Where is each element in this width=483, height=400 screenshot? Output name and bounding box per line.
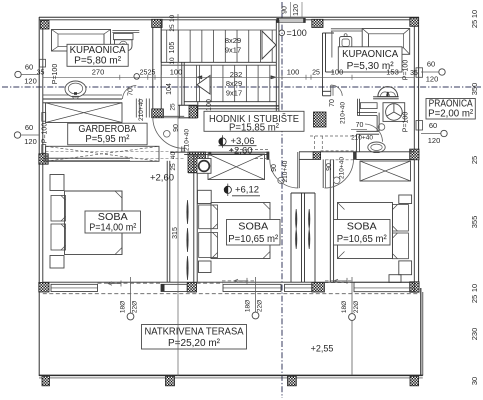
nightstand top soba 14 — [50, 175, 64, 191]
door right bath lobby — [330, 85, 332, 96]
wall garderoba / hallway — [181, 63, 183, 106]
wall garderoba / soba 14 — [43, 157, 130, 159]
axis line horizontal (dash-dot) — [2, 86, 481, 88]
bathtub right bathroom — [362, 29, 410, 55]
column top wall left-center (hatched) — [152, 19, 162, 27]
outer wall top outer line — [39, 16, 419, 18]
svg-text:10: 10 — [169, 15, 176, 23]
svg-text:70: 70 — [329, 99, 336, 107]
column south wall right (hatched) — [410, 282, 419, 292]
garderoba dashed guides — [46, 151, 187, 153]
stairwell corner niche — [178, 104, 197, 106]
terrace post center-left (hatched) — [166, 376, 175, 386]
right bath left wall segments — [322, 33, 324, 96]
hallway / south rooms wall right part — [299, 151, 313, 153]
svg-text:P=100: P=100 — [403, 60, 410, 81]
svg-text:P=100: P=100 — [42, 123, 49, 144]
svg-text:90: 90 — [173, 124, 180, 132]
svg-text:153: 153 — [386, 68, 399, 77]
central insulated wall between sobas — [290, 193, 292, 282]
svg-text:25: 25 — [470, 20, 479, 28]
svg-text:120: 120 — [428, 136, 441, 145]
door knob circle garderoba — [164, 131, 171, 138]
dashed beam lines over hallway doors — [255, 158, 266, 160]
svg-text:18Ø: 18Ø — [120, 301, 127, 313]
dimension line inner horizontal — [43, 76, 415, 78]
terrace right edge inner — [422, 292, 424, 376]
svg-text:120: 120 — [293, 4, 300, 16]
washbasin right bathroom (square) — [340, 37, 352, 49]
terrace post right (hatched) — [410, 376, 419, 386]
svg-text:30: 30 — [470, 377, 479, 385]
svg-text:104: 104 — [166, 83, 173, 95]
terrace post left (hatched) — [42, 376, 50, 386]
outer wall left inner line — [42, 20, 44, 292]
axis line vertical (dash-dot) — [281, 2, 283, 398]
nightstand bottom center soba — [199, 261, 212, 273]
svg-text:100: 100 — [170, 68, 183, 77]
terrace dashed line — [43, 293, 420, 295]
svg-text:25: 25 — [169, 24, 176, 32]
pillar marker circle 2 — [255, 277, 257, 312]
svg-text:P=15,85 m²: P=15,85 m² — [229, 123, 280, 134]
top dim tick — [290, 2, 292, 17]
svg-text:90: 90 — [271, 164, 278, 172]
pillows center soba — [199, 205, 218, 229]
svg-text:25: 25 — [312, 70, 320, 77]
bed soba 14 — [65, 191, 123, 255]
svg-text:25: 25 — [470, 295, 479, 303]
svg-text:P=25,20 m²: P=25,20 m² — [168, 338, 221, 349]
praonica partition walls — [356, 99, 358, 116]
svg-text:210+40: 210+40 — [138, 99, 145, 121]
terrace right edge outer — [420, 288, 422, 376]
wall soba14 right / insulated party wall — [166, 161, 168, 282]
svg-text:35: 35 — [410, 70, 418, 77]
column at stairwell left (hatched) — [152, 109, 164, 118]
door center soba — [297, 152, 299, 188]
svg-text:P=10,65 m²: P=10,65 m² — [228, 234, 279, 245]
door knob circle — [333, 177, 340, 184]
vertical dimension line x=178 — [177, 14, 179, 376]
svg-text:60: 60 — [427, 60, 435, 69]
column south wall center-right (hatched) — [312, 282, 325, 292]
column south wall center-left (hatched) — [187, 282, 196, 292]
svg-text:P=100: P=100 — [403, 112, 410, 133]
pillar marker circle 3 — [349, 314, 356, 321]
dim arrowhead 232 right — [271, 76, 277, 79]
stair landing line — [161, 61, 276, 63]
svg-text:10: 10 — [470, 284, 479, 292]
column hallway wall left (hatched) — [188, 152, 206, 173]
svg-text:90: 90 — [326, 163, 333, 171]
bathtub left bathroom — [52, 30, 111, 52]
dim arrowhead 232 left — [197, 76, 203, 79]
room label SOBA right — [334, 220, 391, 246]
terrace bottom edge thin — [39, 377, 423, 379]
door left bathroom arc — [123, 86, 137, 100]
svg-text:KUPAONICA: KUPAONICA — [70, 45, 126, 56]
window plinth below party wall — [161, 284, 187, 291]
wall between left bathroom and garderoba — [43, 98, 122, 100]
svg-text:18Ø: 18Ø — [341, 301, 348, 313]
right soba left wall — [329, 159, 331, 282]
terrace axis line x=352 — [351, 277, 353, 313]
column right wall mid (hatched) — [410, 149, 419, 160]
stair top platform edge — [161, 29, 276, 31]
insulation lens marks in party wall — [187, 200, 188, 224]
window soba14 south — [51, 284, 98, 291]
svg-text:60: 60 — [25, 63, 33, 72]
svg-text:P=10,65 m²: P=10,65 m² — [337, 234, 388, 245]
svg-text:8x29: 8x29 — [226, 79, 242, 88]
bathroom wall finish line — [43, 94, 122, 96]
insulation lens marks central wall — [296, 209, 297, 229]
svg-text:210+40: 210+40 — [184, 129, 191, 151]
svg-text:SOBA: SOBA — [347, 222, 377, 233]
dim leader circle 25/25 — [134, 74, 140, 80]
nightstand bottom right soba — [399, 261, 412, 275]
room label PRAONICA — [426, 99, 475, 120]
window right soba south — [354, 282, 414, 291]
top dim tick2 — [301, 2, 303, 17]
svg-text:+6,12: +6,12 — [235, 185, 259, 196]
svg-text:SOBA: SOBA — [98, 212, 128, 223]
outer wall right inner line — [413, 20, 415, 292]
right bath lower wall — [323, 90, 331, 92]
svg-text:KUPAONICA: KUPAONICA — [342, 49, 398, 60]
door knob circle praonica — [378, 124, 385, 131]
svg-text:100: 100 — [206, 99, 213, 111]
svg-text:120: 120 — [24, 77, 37, 86]
svg-text:P=100: P=100 — [52, 64, 59, 85]
room label NATKRIVENA TERASA — [142, 325, 247, 350]
nightstand top right soba — [399, 195, 412, 204]
dashed segments above south wall — [222, 280, 256, 282]
column circle in square — [197, 159, 211, 174]
svg-text:22Ø: 22Ø — [353, 301, 360, 313]
svg-text:P=5,80 m²: P=5,80 m² — [74, 56, 122, 67]
svg-text:90: 90 — [282, 6, 289, 14]
svg-text:P=2,00 m²: P=2,00 m² — [428, 109, 474, 120]
svg-text:10: 10 — [470, 10, 479, 18]
window marker left upper (60/120) — [15, 71, 21, 77]
svg-text:60: 60 — [25, 123, 33, 132]
svg-text:9x17: 9x17 — [226, 89, 242, 98]
sliding door dashed segments — [98, 282, 162, 284]
stairs lower flight — [199, 65, 201, 102]
svg-text:25: 25 — [148, 70, 156, 77]
toilet left bathroom — [112, 30, 139, 32]
svg-text:35: 35 — [37, 70, 45, 77]
column corridor right (hatched) — [314, 112, 327, 127]
room label HODNIK I STUBISTE — [204, 111, 304, 131]
door right soba — [322, 159, 324, 188]
svg-text:22Ø: 22Ø — [257, 300, 264, 312]
svg-text:120: 120 — [24, 137, 37, 146]
terrace bottom edge — [39, 374, 423, 376]
hallway / south rooms wall left part — [170, 151, 269, 153]
stair section cut line — [198, 105, 279, 107]
svg-text:+2,60: +2,60 — [228, 145, 252, 156]
svg-text:10: 10 — [169, 57, 176, 65]
svg-text:210+40: 210+40 — [339, 157, 346, 179]
window jambs left wall garderoba — [42, 113, 46, 122]
toilet niche wall — [373, 96, 399, 98]
pillows right soba — [392, 205, 408, 232]
column top wall right-center (hatched) — [312, 19, 323, 27]
bed center soba — [211, 203, 270, 259]
terrace post center-right (hatched) — [288, 376, 297, 386]
svg-text:120: 120 — [426, 75, 439, 84]
svg-text:105: 105 — [169, 42, 176, 54]
column hallway wall center (hatched) — [313, 152, 321, 160]
svg-text:+2,55: +2,55 — [311, 343, 334, 353]
column top-left (hatched) — [41, 21, 50, 30]
svg-text:8x29: 8x29 — [225, 36, 241, 45]
shaft with cross — [208, 154, 265, 180]
shelf niche praonica — [360, 103, 377, 109]
room label GARDEROBA — [68, 123, 147, 145]
stairwell right wall — [275, 20, 277, 112]
svg-text:25: 25 — [140, 70, 148, 77]
svg-text:22Ø: 22Ø — [132, 301, 139, 313]
pillar marker circle 1 — [130, 277, 132, 313]
svg-text:P=5,95 m²: P=5,95 m² — [85, 134, 130, 145]
svg-text:18Ø: 18Ø — [245, 300, 252, 312]
wall between left bathroom / stair well — [152, 27, 154, 109]
wardrobe right soba with cross — [360, 161, 411, 181]
svg-text:355: 355 — [470, 216, 479, 229]
svg-text:+2,60: +2,60 — [150, 172, 174, 183]
room label KUPAONICA right — [338, 47, 402, 72]
room label SOBA center — [227, 220, 281, 246]
column stairwell corner (hatched) — [189, 106, 197, 118]
svg-text:25: 25 — [170, 163, 177, 171]
svg-text:40: 40 — [170, 152, 177, 160]
nightstand bottom soba 14 — [50, 256, 64, 269]
wardrobe 1 with cross — [46, 103, 123, 123]
svg-text:NATKRIVENA TERASA: NATKRIVENA TERASA — [145, 326, 244, 337]
door jamb lines left bath door — [135, 99, 137, 118]
svg-text:25: 25 — [470, 156, 479, 164]
outer wall left outer line — [38, 17, 40, 376]
outer wall right outer line — [418, 17, 420, 292]
window center soba south — [223, 284, 281, 291]
level marker +3,06 / +2,60 — [219, 138, 226, 145]
svg-text:70: 70 — [356, 122, 364, 129]
window marker right lower (60/120) — [441, 130, 447, 136]
stair direction arrow upper (right) — [262, 31, 276, 59]
window marker right upper (60/120) — [439, 69, 445, 75]
pillows soba 14 — [51, 196, 66, 222]
outer wall top inner line — [39, 19, 415, 21]
stairs upper flight — [160, 20, 162, 63]
svg-text:=100: =100 — [287, 28, 307, 38]
door slide arrows — [108, 281, 121, 287]
svg-text:210+40: 210+40 — [282, 160, 289, 182]
svg-text:230: 230 — [470, 328, 479, 341]
toilet right (by axis, dome) — [378, 87, 398, 97]
svg-text:25: 25 — [170, 103, 177, 111]
svg-text:210+40: 210+40 — [351, 135, 373, 142]
svg-text:350: 350 — [470, 83, 479, 96]
svg-text:70: 70 — [128, 88, 135, 96]
svg-text:315: 315 — [172, 227, 179, 239]
column south wall left (hatched) — [39, 282, 49, 292]
svg-text:100: 100 — [331, 68, 344, 77]
column top-right (hatched) — [410, 18, 419, 27]
stairs lower flight bottom — [184, 101, 276, 103]
washbasin praonica lower — [368, 142, 385, 153]
stair direction arrow lower (left) — [197, 76, 210, 95]
room label KUPAONICA left — [67, 44, 128, 66]
bed right soba — [338, 203, 393, 259]
svg-text:100: 100 — [287, 68, 300, 77]
south wall floor line — [43, 281, 415, 283]
svg-text:GARDEROBA: GARDEROBA — [78, 124, 136, 135]
counter right bathroom — [331, 28, 362, 30]
window marker left lower (60/120) — [14, 132, 20, 138]
svg-text:270: 270 — [92, 68, 105, 77]
wardrobe 2 with cross (dashed) — [46, 146, 160, 161]
door knob circle — [278, 177, 284, 183]
window jamb left wall bathroom — [40, 59, 46, 67]
svg-text:P=14,00 m²: P=14,00 m² — [89, 222, 137, 233]
column left wall mid (hatched) — [39, 154, 48, 164]
nightstand top center soba — [198, 190, 212, 203]
washbasin left bathroom — [65, 81, 86, 97]
door praonica — [365, 124, 383, 142]
window in top wall (entry, gray sill) — [277, 18, 305, 22]
door garderoba — [153, 115, 184, 117]
window jamb right wall upper — [416, 68, 423, 78]
svg-text:210+40: 210+40 — [340, 102, 347, 124]
svg-text:9x17: 9x17 — [225, 46, 241, 55]
svg-text:60: 60 — [429, 121, 437, 130]
shelf right soba — [389, 275, 401, 283]
svg-text:SOBA: SOBA — [238, 222, 268, 233]
window jamb right wall lower — [416, 121, 423, 131]
parapet label P=100 entry — [279, 30, 285, 36]
washing machine — [383, 103, 405, 122]
room label SOBA 14 — [85, 211, 141, 233]
level marker +6,12 — [224, 186, 231, 193]
